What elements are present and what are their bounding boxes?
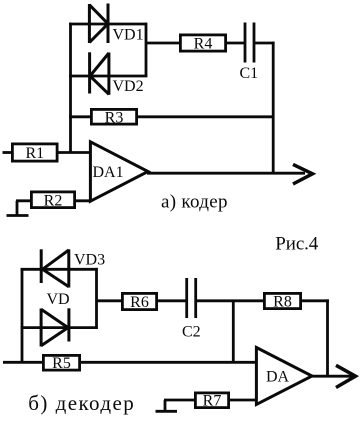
wire input stub to R1 <box>3 151 13 154</box>
svg-text:VD: VD <box>47 291 70 308</box>
wire VD branch <box>21 326 98 329</box>
wire junction down to op-amp input <box>232 301 235 363</box>
diode VD <box>41 308 69 346</box>
svg-text:DA: DA <box>266 369 290 386</box>
resistor R6 <box>122 293 156 309</box>
svg-text:R1: R1 <box>25 145 44 162</box>
wire input and R5 line to op-amp (decoder) <box>3 361 257 364</box>
svg-text:R4: R4 <box>194 35 213 52</box>
wire junction vertical VD3-VD <box>95 268 98 329</box>
wire output (decoder) <box>311 375 355 378</box>
diode VD2 <box>90 52 109 95</box>
svg-text:R8: R8 <box>273 294 292 311</box>
wire R2 to op-amp <box>16 199 91 202</box>
capacitor C1 <box>245 23 254 63</box>
svg-text:R3: R3 <box>105 109 124 126</box>
wire output (encoder) <box>147 172 305 175</box>
wire R4 branch <box>146 42 244 45</box>
wire left rail (encoder) <box>69 23 72 153</box>
svg-text:DA1: DA1 <box>93 164 124 181</box>
arrow output (decoder) <box>336 365 356 387</box>
wire R6 branch <box>97 299 186 302</box>
resistor R2 <box>31 192 74 208</box>
arrow output (encoder) <box>293 164 313 184</box>
resistor R1 <box>12 144 57 161</box>
resistor R7 <box>195 393 228 408</box>
svg-text:Рис.4: Рис.4 <box>275 233 319 254</box>
svg-text:R2: R2 <box>44 193 63 210</box>
svg-text:VD2: VD2 <box>113 78 144 95</box>
svg-text:VD1: VD1 <box>113 27 144 44</box>
wire C2 to R8 <box>196 299 264 302</box>
svg-text:R7: R7 <box>203 393 222 410</box>
svg-text:C2: C2 <box>182 324 201 341</box>
wire VD3 branch <box>21 268 98 271</box>
svg-text:VD3: VD3 <box>74 252 105 269</box>
wire R8 to corner <box>300 299 329 302</box>
op-amp DA <box>256 348 312 405</box>
resistor R3 <box>91 109 136 124</box>
svg-text:а) кодер: а) кодер <box>161 192 228 213</box>
wire R1 to op-amp <box>57 151 91 154</box>
wire VD2 branch <box>69 75 147 78</box>
resistor R4 <box>180 35 225 51</box>
wire C1 to corner <box>254 42 275 45</box>
ground (encoder) <box>7 201 29 216</box>
wire R3 branch <box>69 115 274 118</box>
capacitor C2 <box>187 278 196 318</box>
resistor R5 <box>43 355 79 370</box>
resistor R8 <box>264 293 300 308</box>
diode VD1 <box>89 4 108 44</box>
wire corner VD1-to-VD2 vertical <box>145 23 148 76</box>
svg-text:R5: R5 <box>52 355 71 372</box>
wire left rail (decoder) <box>21 268 24 362</box>
wire right rail down (encoder) <box>272 42 275 174</box>
wire right rail down (decoder) <box>326 299 329 377</box>
wire R7 branch <box>164 399 257 402</box>
svg-text:R6: R6 <box>130 294 149 311</box>
svg-text:C1: C1 <box>240 65 259 82</box>
diode VD3 <box>41 249 69 287</box>
ground (decoder) <box>156 400 178 411</box>
op-amp DA1 <box>90 142 148 201</box>
wire VD1 branch top <box>69 23 147 26</box>
svg-text:б) декодер: б) декодер <box>28 391 134 415</box>
